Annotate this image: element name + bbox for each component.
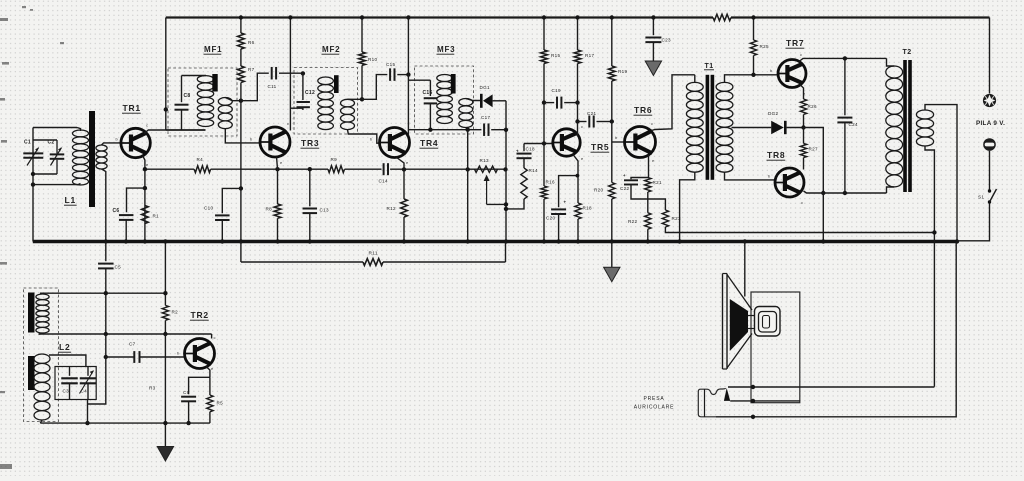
capacitor C16 inside MF3	[429, 80, 431, 96]
wire: R23 bottom feedback line to T2 secondary	[665, 227, 934, 233]
resistor R2	[162, 305, 168, 320]
svg-text:R21: R21	[653, 180, 662, 185]
wire: R15 column to base	[543, 64, 545, 144]
inductor MF3 primary	[437, 75, 453, 82]
inductor MF2 secondary	[341, 99, 355, 107]
inductor MF2 primary	[318, 77, 334, 85]
wire: TR1 emitter column	[143, 156, 145, 242]
resistor R14	[523, 158, 525, 168]
resistor R20	[611, 142, 613, 183]
wire: R6/R7 column lower extension to bus	[240, 101, 242, 242]
capacitor C18 (AGC)	[523, 144, 525, 152]
wire: R19 column to TR6 base node	[611, 81, 613, 142]
svg-text:MF3: MF3	[437, 45, 455, 54]
resistor R16	[541, 186, 547, 199]
wire: TR7 emitter down to R26	[800, 85, 804, 100]
capacitor C24 (across T2 primary)	[844, 58, 846, 115]
capacitor C22 (electrolytic)	[631, 178, 649, 180]
svg-text:C12: C12	[305, 90, 315, 96]
wire: +9V top supply rail	[166, 16, 713, 18]
resistor R25	[753, 18, 755, 41]
wire: C5 column link to trimmer box	[88, 334, 106, 404]
wire: emitter line R4 to TR3	[211, 168, 278, 170]
wire: trimmer box bottom to return	[87, 400, 89, 424]
svg-text:L2: L2	[59, 342, 71, 352]
core of T2	[903, 60, 907, 192]
svg-text:C9: C9	[183, 390, 190, 395]
wire: TR4 collector riser / MF3 feed	[407, 18, 409, 136]
svg-text:C13: C13	[320, 208, 329, 213]
svg-text:R1: R1	[153, 214, 160, 219]
wire: TR7 collector to T2 primary top	[799, 58, 887, 61]
wire: T2 primary bottom riser	[887, 187, 895, 193]
capacitor C11 coupling	[241, 73, 269, 101]
core of T1	[706, 75, 710, 180]
inductor T1 secondary winding	[716, 82, 733, 91]
svg-text:T1: T1	[705, 63, 714, 70]
inductor MF3 secondary	[459, 99, 473, 106]
capacitor C6 (TR1 emitter bypass)	[127, 188, 145, 212]
svg-text:C19: C19	[552, 88, 561, 93]
wire: TR5 emitter down	[573, 155, 578, 176]
wire: jack tip to T2 secondary (speaker hot)	[728, 386, 934, 388]
resistor R18 (TR5 emitter)	[577, 176, 579, 203]
svg-text:R13: R13	[480, 158, 489, 163]
wire: emitter line C14 to TR4 emitter and R13 node	[390, 168, 505, 170]
resistor R15	[543, 18, 545, 51]
resistor R6	[240, 18, 242, 34]
svg-text:R10: R10	[368, 57, 377, 62]
capacitor C15 coupling	[362, 75, 387, 100]
resistor R5	[328, 166, 345, 173]
resistor R27	[803, 128, 805, 144]
svg-text:L1: L1	[65, 195, 77, 205]
wire: ground bus (heavy)	[33, 240, 957, 243]
svg-text:R25: R25	[760, 44, 769, 49]
transistor TR6	[625, 127, 656, 158]
resistor R22	[647, 192, 649, 213]
svg-text:R14: R14	[529, 168, 538, 173]
svg-text:TR6: TR6	[634, 105, 652, 115]
trimmer box C3/C4	[55, 367, 96, 400]
wire: T2 secondary top to bus end	[925, 105, 957, 242]
core bar of L2 top winding	[28, 293, 35, 333]
svg-text:C18: C18	[526, 147, 535, 152]
wire: jack ring line	[730, 400, 800, 402]
wire: MF3 feed link	[408, 79, 430, 81]
svg-text:C8: C8	[184, 93, 191, 99]
wire: TR3 emitter down	[277, 157, 278, 170]
tuning slug MF2	[334, 75, 339, 93]
IF transformer MF3 dashed can	[415, 66, 474, 134]
transistor TR7	[778, 60, 806, 88]
wire: TR4 collector line to detector	[408, 129, 467, 131]
transistor TR4	[380, 128, 410, 158]
capacitor C4 trimmer	[87, 367, 89, 376]
wire: MF1 interior top	[182, 75, 207, 77]
wire: L1 secondary top to TR1 base	[102, 143, 121, 145]
svg-text:C7: C7	[129, 342, 136, 347]
transistor TR2	[185, 339, 215, 369]
svg-text:TR1: TR1	[123, 103, 141, 113]
variable capacitor C1	[23, 152, 43, 154]
wire: L1 secondary bottom to bus (osc injection riser)	[102, 169, 106, 242]
wire: TR2 emitter down	[206, 367, 210, 378]
svg-text:+: +	[564, 200, 567, 205]
ferrite rod of L1	[89, 111, 95, 207]
wire: tank top	[33, 127, 77, 129]
svg-text:C20: C20	[546, 216, 555, 221]
ground symbol below C23	[645, 61, 661, 76]
wire: tank left edge / bus left riser	[32, 128, 34, 242]
wire: MF2 secondary bottom to TR4 base	[348, 130, 380, 144]
resistor R12 (TR4 emitter)	[403, 169, 405, 199]
svg-text:MF2: MF2	[322, 45, 340, 54]
inductor MF1 primary	[197, 76, 213, 83]
capacitor C20 (emitter bypass)	[559, 176, 578, 208]
capacitor C13	[309, 169, 311, 206]
jack tip contact triangle	[724, 388, 730, 401]
wire: wiper to node B	[487, 203, 506, 205]
resistor R17	[577, 18, 579, 51]
inductor L2 dashed outline	[24, 288, 59, 422]
transistor TR8	[775, 168, 804, 197]
wire: L2 bottom winding top link to trimmer box	[49, 355, 86, 367]
capacitor C10	[239, 186, 243, 190]
wire: R11 right riser	[505, 242, 507, 263]
node: C2 bottom wire	[33, 173, 57, 175]
transistor TR5	[553, 129, 580, 156]
svg-text:c: c	[146, 123, 148, 128]
capacitor C14	[383, 163, 385, 175]
svg-text:TR7: TR7	[786, 38, 804, 48]
svg-text:R12: R12	[387, 206, 396, 211]
svg-text:AURICOLARE: AURICOLARE	[634, 405, 675, 411]
IF transformer MF1 dashed can	[168, 68, 237, 136]
wire: TR1 collector to MF1	[144, 130, 206, 134]
wire segment TR3 emitter junction to R5	[278, 168, 329, 170]
wire: MF1 secondary top to R7 node	[225, 98, 241, 101]
wire: switch to bus end	[957, 204, 990, 241]
potentiometer R13 (volume)	[475, 166, 498, 172]
node: C2 top wire	[33, 139, 57, 141]
svg-text:T2: T2	[903, 49, 912, 56]
wire: MF2 feed link	[290, 107, 303, 109]
svg-text:C3: C3	[63, 389, 70, 394]
svg-text:R26: R26	[808, 104, 817, 109]
tuning slug MF3	[451, 74, 456, 94]
svg-text:R18: R18	[583, 206, 592, 211]
resistor R4	[194, 166, 210, 173]
wire: T1 primary top	[694, 75, 696, 83]
svg-text:R2: R2	[172, 310, 179, 315]
svg-text:DG1: DG1	[480, 85, 490, 90]
wire: MF3 secondary top to diode DG1	[466, 99, 480, 101]
wire: MF2 secondary top to R10 node	[348, 98, 363, 100]
wiper arrow of R13	[486, 179, 488, 205]
inductor L2 top winding	[36, 294, 49, 300]
speaker voice coil neck	[748, 315, 755, 317]
wire: T1 secondary bottom to TR8 base	[725, 172, 776, 180]
wire: collector line to TR2	[164, 320, 166, 334]
svg-text:c: c	[287, 121, 289, 126]
capacitor C21 coupling	[578, 121, 587, 123]
svg-text:C15: C15	[386, 62, 395, 67]
svg-text:C4: C4	[81, 389, 88, 394]
resistor (series, unlabeled) in top rail	[713, 14, 731, 20]
wire: tank bottom	[33, 184, 78, 186]
speaker enclosure box	[751, 292, 800, 403]
wire: R2 column from bus	[164, 242, 166, 306]
wire: C22/R21 bottom to R23	[649, 199, 666, 210]
wire: TR5 collector column	[577, 64, 579, 137]
resistor R7	[240, 49, 242, 66]
wire: TR6 emitter down	[648, 155, 650, 178]
wire: oscillator bottom return	[40, 422, 210, 424]
svg-text:R3: R3	[149, 386, 156, 391]
svg-text:C1: C1	[24, 140, 31, 146]
wire: MF3 secondary bottom to detector node	[466, 128, 468, 130]
tuning slug MF1	[212, 74, 217, 92]
speaker magnet outer	[755, 307, 781, 337]
wire: T2 primary top riser	[887, 58, 895, 66]
diode DG2	[771, 121, 784, 134]
svg-text:+: +	[623, 173, 626, 178]
svg-text:C16: C16	[423, 90, 433, 96]
inductor T1 primary winding	[686, 82, 703, 91]
variable capacitor C2	[56, 140, 58, 153]
svg-text:R19: R19	[618, 69, 627, 74]
wire: MF1 interior bottom	[166, 129, 206, 131]
capacitor C5	[105, 242, 107, 262]
svg-text:R17: R17	[585, 53, 594, 58]
svg-text:R9: R9	[331, 157, 338, 162]
transistor TR1	[121, 128, 150, 157]
core bar of L2 bottom winding	[28, 356, 35, 390]
svg-text:C14: C14	[379, 179, 388, 184]
svg-text:R16: R16	[546, 180, 555, 185]
svg-text:R7: R7	[248, 67, 255, 72]
wire: rail to battery plus	[989, 18, 991, 94]
svg-text:R6: R6	[248, 40, 255, 45]
svg-text:R5: R5	[217, 401, 224, 406]
svg-text:C6: C6	[113, 208, 120, 214]
svg-text:+: +	[516, 149, 519, 154]
svg-text:R27: R27	[809, 147, 818, 152]
capacitor C17	[468, 129, 482, 131]
wire: R11 left riser	[240, 242, 242, 263]
svg-text:C24: C24	[849, 122, 858, 127]
diode DG1	[480, 94, 483, 108]
svg-text:C23: C23	[662, 38, 671, 43]
inductor L2 bottom winding	[34, 354, 50, 363]
svg-text:S1: S1	[978, 195, 984, 200]
svg-text:R11: R11	[369, 251, 378, 257]
svg-text:MF1: MF1	[204, 45, 222, 54]
scan edge marks (decorative)	[0, 6, 64, 469]
ground symbol oscillator	[157, 447, 173, 462]
resistor R1 (TR1 emitter)	[142, 206, 149, 224]
wire: emitter line R5 to C14	[345, 168, 382, 170]
svg-text:R22: R22	[628, 219, 637, 224]
inductor L1 primary winding	[73, 130, 89, 137]
inductor T2 primary winding	[886, 66, 903, 78]
speaker magnet inner	[759, 312, 777, 333]
resistor R10	[361, 18, 363, 53]
svg-text:R20: R20	[594, 188, 603, 193]
wire: TR8 right to T2 primary bottom	[804, 191, 887, 193]
capacitor C8 inside MF1	[181, 76, 183, 103]
capacitor C9	[189, 377, 210, 394]
wire: MF1 secondary bottom to TR3 base	[225, 129, 259, 143]
svg-text:C21: C21	[587, 111, 596, 116]
resistor R23	[662, 210, 668, 227]
svg-text:c: c	[581, 124, 583, 129]
svg-text:R8: R8	[266, 207, 273, 212]
IF transformer MF2 dashed can	[294, 68, 358, 135]
svg-text:C10: C10	[204, 206, 213, 211]
capacitor C23 rail bypass	[652, 18, 654, 36]
wire: T1 secondary center tap to diode DG2	[732, 127, 772, 129]
wire: bias node	[803, 115, 805, 128]
battery negative terminal	[983, 138, 996, 151]
inductor L1 secondary winding	[96, 145, 107, 151]
ground symbol below bus at R20 column	[611, 242, 613, 268]
speaker cone dark fill	[730, 299, 748, 351]
transistor TR3	[260, 127, 290, 157]
wire: line A (detector load) to bus	[467, 130, 469, 242]
resistor R19	[611, 18, 613, 67]
svg-text:c: c	[651, 121, 653, 126]
wire: TR5 base line	[524, 143, 553, 145]
svg-text:DG2: DG2	[768, 111, 778, 116]
battery positive terminal	[983, 94, 996, 107]
inductor T2 secondary winding	[916, 110, 933, 119]
wire: speaker feed from bus	[743, 239, 747, 243]
switch S1	[988, 189, 991, 192]
resistor R8 (TR3 emitter)	[277, 169, 279, 204]
svg-text:R15: R15	[551, 53, 560, 58]
svg-text:TR8: TR8	[767, 150, 785, 160]
svg-text:R4: R4	[197, 157, 204, 162]
wire: detector node B vertical	[505, 101, 507, 242]
svg-text:PILA 9 V.: PILA 9 V.	[976, 120, 1005, 127]
wire: TR6 collector to T1 primary	[652, 75, 695, 131]
svg-text:C5: C5	[115, 265, 122, 270]
resistor R11	[241, 261, 363, 263]
resistor R26	[800, 99, 806, 115]
svg-text:TR3: TR3	[301, 138, 319, 148]
wire: jack sleeve return to bus	[716, 242, 956, 417]
svg-text:TR2: TR2	[191, 310, 209, 320]
capacitor C7	[104, 355, 108, 359]
wire: TR3 collector riser into MF2	[289, 18, 291, 131]
wire: R3 line to ground	[164, 334, 166, 447]
wire: emitter AGC line	[145, 168, 194, 170]
svg-text:c: c	[800, 52, 802, 57]
wire: TR4 emitter down	[396, 157, 404, 169]
speaker frame	[722, 274, 724, 370]
wire: battery minus to switch	[989, 151, 991, 190]
wire: T2 secondary bottom to speaker line	[925, 146, 934, 387]
wire: T1 primary bottom to bus	[680, 172, 695, 241]
svg-text:C11: C11	[268, 84, 277, 89]
svg-text:PRESA: PRESA	[644, 396, 665, 402]
capacitor C19	[544, 102, 554, 104]
wire: rail feed riser at x=166	[165, 18, 167, 131]
earphone jack PRESA AURICOLARE outline	[698, 388, 726, 416]
resistor R21	[645, 178, 651, 193]
capacitor C3	[69, 367, 71, 376]
wire: T1 secondary top to TR7 base	[725, 75, 778, 83]
wire: L2 top winding to R2 column	[40, 292, 165, 294]
speaker cone outline	[727, 275, 752, 311]
capacitor C12 inside MF2	[301, 71, 305, 75]
inductor MF1 secondary	[218, 98, 232, 106]
svg-text:C2: C2	[48, 140, 55, 146]
svg-text:C22: C22	[620, 186, 629, 191]
svg-text:c: c	[801, 200, 803, 205]
svg-text:TR4: TR4	[420, 138, 438, 148]
wire: bias node right branch to TR8 emitter line and bus	[804, 128, 824, 242]
wire: TR6 base link	[612, 141, 625, 143]
resistor R5 (TR2 emitter)	[209, 377, 211, 395]
svg-text:C17: C17	[481, 115, 490, 120]
svg-text:TR5: TR5	[591, 142, 609, 152]
svg-text:c: c	[214, 335, 216, 340]
